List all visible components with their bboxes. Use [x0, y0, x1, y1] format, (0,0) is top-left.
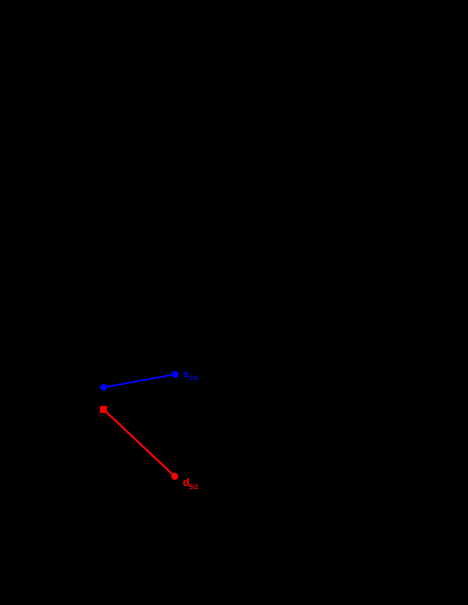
svg-text:1/2: 1/2 [189, 375, 199, 382]
svg-text:5/2: 5/2 [189, 484, 199, 491]
svg-text:s: s [183, 369, 189, 380]
